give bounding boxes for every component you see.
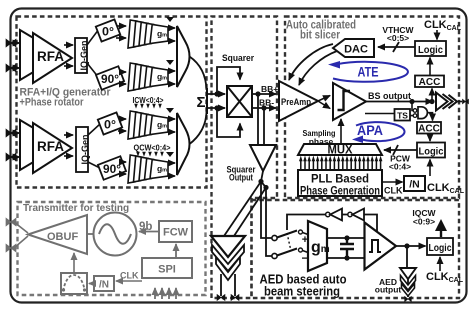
- /N box: [404, 176, 425, 191]
- IQ-Gen ch2: [76, 127, 88, 172]
- wire: obuf to pads: [14, 222, 28, 248]
- svg-text:Output: Output: [229, 173, 254, 184]
- SPI input arrows from below: [154, 288, 156, 299]
- pad ch2 in-: [6, 153, 16, 160]
- PCW slash: [393, 145, 398, 155]
- svg-text:ICW<0:4>: ICW<0:4>: [133, 95, 164, 105]
- wire: gm outputs: [327, 237, 364, 239]
- svg-text:/N: /N: [99, 280, 109, 291]
- wire: fan to 90deg ch2: [88, 162, 100, 168]
- svg-text:<0:9>: <0:9>: [413, 217, 435, 227]
- wire: ch1 input arrows: [14, 42, 20, 44]
- svg-text:APA: APA: [357, 123, 383, 138]
- /N box tx: [94, 276, 114, 291]
- wire: comparator to Logic3: [396, 245, 426, 247]
- pad ch2 in+: [6, 129, 16, 136]
- svg-text:Logic: Logic: [419, 146, 444, 158]
- NAND gate: [418, 107, 427, 119]
- RFA amplifier ch1: [20, 30, 62, 80]
- svg-text:BB+: BB+: [261, 84, 278, 94]
- svg-text:bit slicer: bit slicer: [300, 28, 340, 42]
- IQCW arrow: [440, 230, 442, 237]
- node BB-: [261, 105, 266, 110]
- PLL box: [298, 170, 382, 196]
- IQ-Gen ch1: [75, 38, 87, 73]
- svg-text:Logic: Logic: [429, 242, 452, 254]
- wire: BB- output: [252, 107, 276, 109]
- svg-text:Phase Generation: Phase Generation: [300, 186, 380, 198]
- wire: VGA2 outputs: [168, 70, 175, 72]
- pad bottom left 2: [231, 295, 239, 301]
- pad driver chevron stack: [211, 236, 245, 257]
- capacitor: [340, 238, 354, 258]
- wire: BB drops to squarer output buffer: [257, 94, 259, 145]
- wire: combiner ch1 to summer: [190, 57, 207, 91]
- Logic box 2: [417, 143, 445, 158]
- combiner ch1: [177, 26, 190, 87]
- ICW control comb: [134, 104, 162, 109]
- wire: MUX to slicer sampling: [340, 119, 342, 144]
- svg-text:−: −: [301, 251, 308, 265]
- squarer mixer X-box: [227, 86, 252, 117]
- wire: RFA ch2 to IQ-Gen: [64, 134, 73, 136]
- MUX: [298, 144, 382, 155]
- node cap top: [344, 235, 349, 240]
- wire: BS output: [366, 101, 433, 103]
- svg-text:CLKCAL: CLKCAL: [426, 271, 464, 284]
- dashed box: AED based auto beam steering: [252, 200, 460, 298]
- svg-text:90°: 90°: [103, 162, 121, 176]
- bus slash: [393, 42, 399, 52]
- svg-text:BB-: BB-: [259, 98, 274, 108]
- svg-text:RFA: RFA: [37, 49, 64, 64]
- wire: squarer bottom feedback loop: [217, 108, 240, 137]
- dashed box: RFA + I/Q generator + phase rotator: [17, 17, 207, 188]
- VGA stack I ch2: [128, 108, 174, 139]
- wire: squarer nodes into AED switches: [261, 182, 272, 239]
- phase box 90deg ch1: [96, 66, 124, 90]
- phase box 0deg ch2: [98, 112, 122, 134]
- svg-text:BS output: BS output: [368, 91, 411, 101]
- wire: PLL CLK to /N: [382, 181, 403, 183]
- wire: 90deg to VGA2: [121, 71, 126, 73]
- svg-text:IQ-Gen: IQ-Gen: [80, 134, 90, 164]
- PreAmp: [279, 81, 318, 121]
- svg-text:ACC: ACC: [418, 124, 440, 135]
- svg-text:output: output: [375, 285, 402, 295]
- svg-text:CLK: CLK: [384, 186, 403, 196]
- wire: 0deg ch2 to VGA3: [119, 118, 126, 120]
- wire: pad driver verticals: [221, 274, 235, 296]
- svg-text:PLL Based: PLL Based: [311, 174, 369, 186]
- wire: squarer top feedback loop: [217, 67, 240, 94]
- gm block: [308, 221, 327, 271]
- node AED out: [404, 243, 409, 248]
- wire: obuf to oscillator: [87, 233, 94, 235]
- dashed box: transmitter for testing (gray): [18, 202, 206, 295]
- wire: buffer to nodes: [261, 171, 266, 188]
- wire: Logic2 to MUX (PCW): [384, 149, 417, 151]
- dashed box: squarer column: [212, 17, 278, 299]
- wire: clkcal to logic1: [436, 30, 438, 40]
- svg-text:+: +: [302, 234, 308, 246]
- DAC offset arrows: [289, 44, 333, 80]
- svg-text:<0:5>: <0:5>: [387, 33, 409, 43]
- svg-text:OBUF: OBUF: [47, 231, 78, 243]
- node squarer out 1: [258, 179, 263, 184]
- wire: into TS: [365, 114, 413, 116]
- svg-text:Σ: Σ: [196, 94, 205, 111]
- svg-text:ATE: ATE: [358, 64, 379, 80]
- pad bottom left 1: [217, 295, 225, 301]
- inverter 1: [326, 212, 330, 216]
- switch linkage dotted: [287, 233, 291, 251]
- input double chevrons: [14, 41, 18, 160]
- wire: ACC2 to Logic2: [429, 134, 431, 142]
- squarer output buffer triangle: [250, 145, 276, 171]
- node dots on summer outputs: [214, 91, 219, 96]
- svg-text:SPI: SPI: [158, 264, 176, 276]
- wire: VGA1 outputs: [168, 27, 175, 29]
- wire: CLK to /N tx: [116, 280, 142, 282]
- wire: BS to ACC1: [431, 89, 433, 101]
- BS output chevrons: [436, 93, 448, 111]
- svg-text:CLK: CLK: [120, 271, 139, 281]
- APA ellipse: [356, 122, 405, 141]
- wire: contact stubs to gm: [303, 233, 309, 253]
- node cap bottom: [344, 255, 349, 260]
- switch arm 1: [277, 231, 297, 238]
- wire: feedback to switches: [287, 215, 377, 234]
- wire: fan to 90deg ch1: [87, 63, 99, 78]
- svg-text:FCW: FCW: [163, 227, 189, 239]
- wire: gate to ACC2: [427, 113, 432, 121]
- wire: BS drop to gate: [412, 102, 413, 111]
- oscillator: [94, 213, 137, 256]
- combiner ch2: [177, 113, 190, 175]
- wire: combiner ch2 to summer: [190, 112, 207, 144]
- pad ch1 in+: [6, 39, 16, 46]
- Logic box 1: [415, 41, 446, 56]
- svg-text:Logic: Logic: [418, 44, 443, 56]
- wire: ACC1 to Logic1: [429, 58, 431, 76]
- wire: VGA3 outputs: [168, 118, 175, 120]
- summer sigma: [206, 88, 208, 114]
- switch pivot 2: [272, 253, 277, 258]
- node BB+: [255, 91, 260, 96]
- wire: fan to 0deg ch1: [87, 29, 99, 45]
- node squarer out 2: [263, 185, 268, 190]
- svg-text:beam steering: beam steering: [264, 284, 340, 299]
- wire: clkcal to Logic3: [439, 257, 441, 271]
- dashed box: auto calibrated bit slicer: [285, 17, 459, 199]
- svg-text:/N: /N: [409, 179, 420, 191]
- svg-text:CLKCAL: CLKCAL: [424, 19, 462, 32]
- ATE ellipse: [333, 62, 408, 82]
- VGA stack Q ch1: [128, 60, 174, 91]
- bell filter box: [61, 273, 87, 294]
- svg-text:90°: 90°: [101, 72, 119, 86]
- slicer comparator: [333, 83, 366, 120]
- svg-text:PreAmp: PreAmp: [281, 97, 311, 108]
- Logic box 3: [427, 238, 453, 255]
- VGA stack Q ch2: [128, 152, 174, 183]
- svg-text:CLKCAL: CLKCAL: [427, 182, 465, 195]
- svg-text:MUX: MUX: [328, 143, 353, 157]
- pad tx 2: [6, 244, 16, 251]
- wire: AED output drop: [407, 246, 408, 297]
- wire: RFA ch1 to IQ-Gen: [64, 44, 73, 46]
- AED comparator: [365, 223, 397, 270]
- svg-text:QCW<0:4>: QCW<0:4>: [134, 143, 171, 153]
- svg-text:<0:4>: <0:4>: [389, 162, 411, 172]
- pad right: [462, 99, 468, 104]
- FCW box: [159, 221, 192, 242]
- AED output chevrons: [400, 268, 416, 279]
- svg-text:DAC: DAC: [344, 44, 368, 56]
- switch contact 1: [299, 230, 303, 234]
- node BS 2: [429, 99, 434, 104]
- wire: ch2 input arrows: [14, 132, 20, 134]
- svg-text:RFA: RFA: [37, 139, 64, 154]
- wire: 90deg ch2 to VGA4: [123, 161, 126, 163]
- wire: 0deg to VGA1: [117, 25, 126, 27]
- pad AED bottom: [405, 296, 412, 301]
- wire: /N to Logic2: [429, 160, 431, 177]
- pad tx 1: [6, 218, 16, 225]
- wire: logic to DAC bus: [378, 46, 415, 48]
- wire: summer outputs: [207, 93, 225, 95]
- NAND gate input bubbles: [413, 109, 417, 113]
- inverter 2: [348, 212, 352, 216]
- wire: VGA4 outputs: [168, 162, 175, 164]
- wire: /N to bell: [89, 283, 94, 285]
- VGA stack I ch1: [128, 17, 174, 48]
- switch arm 2: [277, 249, 297, 256]
- wire: fan to 0deg ch2: [88, 124, 100, 135]
- ACC box 2: [417, 122, 441, 134]
- SPI box: [142, 258, 192, 278]
- wire: SPI to FCW: [175, 244, 177, 258]
- node BS 1: [409, 99, 414, 104]
- svg-text:0°: 0°: [102, 25, 114, 39]
- wire: bell to OBUF: [73, 253, 75, 273]
- DAC: [333, 39, 374, 57]
- phase box 0deg ch1: [96, 19, 120, 41]
- OBUF triangle: [28, 215, 87, 254]
- svg-text:+Phase rotator: +Phase rotator: [20, 97, 85, 109]
- QCW control comb: [136, 152, 164, 157]
- phase box 90deg ch2: [98, 156, 126, 180]
- pad ch1 in-: [6, 64, 16, 71]
- RFA amplifier ch2: [20, 120, 62, 170]
- svg-text:0°: 0°: [104, 118, 116, 132]
- wire: diagonals to pad driver: [224, 182, 261, 237]
- switch contact 2: [299, 248, 303, 252]
- wire: preamp to slicer: [318, 96, 330, 102]
- wire: BB+ output: [252, 93, 276, 95]
- svg-text:Squarer: Squarer: [222, 53, 254, 64]
- svg-text:ACC: ACC: [419, 77, 441, 88]
- svg-text:TS: TS: [397, 111, 408, 121]
- wire: FCW to oscillator: [139, 231, 159, 233]
- TS box: [395, 109, 411, 121]
- switch pivot 1: [272, 235, 277, 240]
- ACC box 1: [415, 76, 444, 88]
- phase comb arrows: [299, 156, 382, 170]
